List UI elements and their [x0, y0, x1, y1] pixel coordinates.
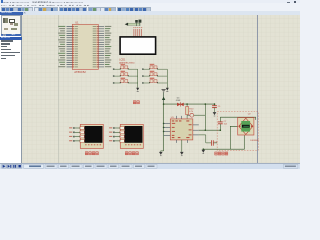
- svg-text:U1: U1: [75, 20, 79, 24]
- LCD display LCD1: [119, 36, 155, 63]
- power symbol (top of temp section): [161, 89, 165, 104]
- dashed enclosure (temperature section): [217, 111, 258, 150]
- push buttons K1-K6: [113, 63, 169, 91]
- temperature sensor U2 (DS18B20): [237, 113, 259, 142]
- resistor R10: [185, 104, 193, 119]
- left panel: [0, 15, 22, 164]
- P L buttons + header: [1, 34, 3, 36]
- power terminal (left arrow) above LCD: [124, 19, 141, 25]
- wire: top run to sensor: [220, 117, 255, 120]
- display module B (black screen): [109, 124, 143, 148]
- capacitor C6: [198, 134, 217, 145]
- svg-text:4.7k: 4.7k: [189, 111, 193, 113]
- overview window: [1, 15, 21, 35]
- title bar: [0, 0, 300, 4]
- ground (left bus bottom): [159, 150, 164, 155]
- menu bar: [0, 3, 300, 6]
- junction node dots: [162, 103, 220, 150]
- wire: DQ line from U3 to sensor: [198, 129, 219, 131]
- ground (below C5): [212, 112, 216, 116]
- svg-text:LCD1: LCD1: [119, 58, 126, 61]
- label 温度采集 (red): [214, 152, 227, 155]
- status bar: [0, 163, 300, 169]
- wire: left bus down: [162, 104, 164, 151]
- tab row: [0, 11, 300, 14]
- ground (below U3, chip bottom): [180, 139, 184, 155]
- wire: power rail: [163, 103, 214, 105]
- toolbar: [0, 7, 300, 13]
- capacitor C7 (series, vertical): [218, 117, 227, 130]
- schematic area: [22, 15, 300, 164]
- diode D4: [175, 97, 183, 106]
- wire: bottom run: [203, 148, 244, 150]
- LCD pins (red stubs above display): [133, 27, 142, 36]
- transistor Q1 (small red symbol): [187, 104, 205, 130]
- sheet left border: [57, 15, 59, 164]
- wire: sensor left pin down: [230, 126, 237, 149]
- sheet right border: [256, 15, 258, 164]
- svg-text:104: 104: [223, 123, 226, 125]
- microcontroller U1: [58, 20, 111, 74]
- label 按键 (red): [133, 100, 139, 103]
- list: [0, 37, 22, 40]
- label under module A: [85, 151, 98, 154]
- svg-text:AT89C52: AT89C52: [74, 70, 86, 74]
- display module A (black screen): [69, 124, 103, 148]
- label under module B: [125, 151, 138, 154]
- capacitor C5: [212, 104, 221, 112]
- wire: ground stub for bottom run: [202, 148, 204, 150]
- interface chip U3: [163, 115, 198, 142]
- ground (bottom run): [201, 149, 205, 153]
